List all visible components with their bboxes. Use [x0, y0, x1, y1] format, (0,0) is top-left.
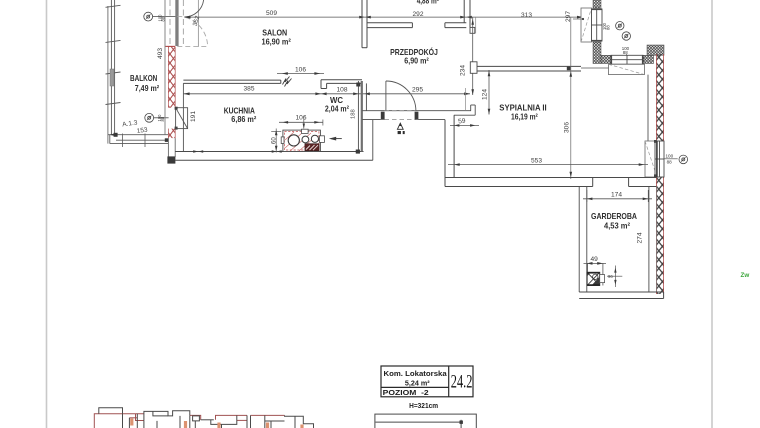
balcony bottom edge lines	[108, 135, 169, 144]
dim 106 top (opening)	[277, 73, 324, 75]
svg-text:60: 60	[272, 137, 278, 144]
entry door swing arc	[386, 81, 416, 111]
svg-text:WC: WC	[330, 96, 343, 105]
window heavy mid frame line	[656, 141, 658, 177]
svg-text:295: 295	[412, 87, 423, 94]
svg-text:188: 188	[351, 109, 357, 119]
balcony railing double line	[111, 0, 114, 135]
WC top wall with left hook	[321, 80, 362, 89]
vent circle top right 1	[616, 22, 624, 30]
red outline parts	[94, 414, 284, 428]
balcony hatched wall upper segment	[168, 47, 175, 108]
svg-text:6,90 m²: 6,90 m²	[404, 57, 429, 66]
svg-text:POZIOM -2: POZIOM -2	[383, 388, 429, 397]
page fold line left	[46, 0, 48, 428]
thin line right of stub	[475, 17, 477, 33]
svg-text:GARDEROBA: GARDEROBA	[591, 212, 637, 221]
top interior wall band right	[445, 23, 466, 28]
small rect next to X-box	[600, 275, 605, 283]
wall below hatch to corner	[168, 138, 175, 157]
middle window corner squares	[654, 140, 657, 143]
dim 59 line	[450, 124, 479, 126]
svg-text:49: 49	[591, 256, 599, 263]
zigzag exterior wall lower segment	[656, 177, 663, 294]
top interior wall band left (above przedpokoj)	[367, 23, 412, 28]
svg-text:124: 124	[482, 89, 489, 100]
horizontal dim line y=93.8	[184, 93, 470, 95]
balcony bottom dimension line 153	[116, 134, 169, 148]
window corner squares	[175, 107, 178, 110]
salon door dashed arc	[177, 16, 207, 46]
svg-text:106: 106	[295, 67, 306, 74]
arrows on 93.8 dim	[184, 92, 190, 95]
garderoba left wall outer	[578, 187, 580, 293]
wall between 4,88 room and przedpokoj right vertical	[464, 0, 470, 27]
vent circle right middle	[679, 155, 688, 164]
svg-text:16,19 m²: 16,19 m²	[511, 113, 538, 122]
entry arrow symbol triangle	[397, 123, 403, 129]
svg-text:59: 59	[458, 117, 467, 125]
svg-text:306: 306	[564, 122, 571, 133]
dim node dot balcony corner	[114, 133, 118, 137]
vent circle mid-left	[145, 113, 169, 122]
wall przedpokoj|lower zone vertical band	[445, 115, 454, 186]
shaft rect with dashed diagonal	[581, 8, 592, 42]
przedpokoj bottom wall outer face right part	[418, 119, 445, 121]
wall stub below (door jamb to sypialnia)	[470, 27, 475, 33]
kitchen counter outline	[283, 130, 321, 151]
przedpokoj bottom wall interior face	[362, 110, 471, 112]
middle window frame	[655, 141, 664, 177]
svg-text:PRZEDPOKÓJ: PRZEDPOKÓJ	[390, 46, 438, 57]
interior line under sill	[581, 67, 609, 69]
counter red dashed inner border	[284, 132, 319, 150]
vent circle top right 2	[622, 32, 630, 40]
big left arrow (kitchen entry)	[329, 137, 342, 141]
railing tick marks	[106, 5, 121, 104]
garderoba right wall inner	[648, 187, 650, 293]
svg-text:SALON: SALON	[262, 29, 287, 38]
exterior sill rect below window	[609, 64, 645, 74]
svg-text:106: 106	[296, 115, 307, 122]
chain arrow left	[184, 16, 190, 19]
svg-text:88: 88	[605, 25, 610, 30]
svg-text:493: 493	[157, 48, 164, 59]
lower floor plan top rectangle	[375, 414, 476, 428]
notch near sypialnia west	[454, 105, 475, 115]
corridor face line below przedpokoj	[372, 120, 374, 161]
svg-text:16,90 m²: 16,90 m²	[262, 37, 292, 46]
svg-text:5,24 m²: 5,24 m²	[405, 379, 430, 388]
svg-text:6,86 m²: 6,86 m²	[231, 115, 256, 124]
dim node dot right	[165, 138, 169, 142]
sypialnia top wall double line	[477, 66, 581, 71]
svg-text:88: 88	[667, 159, 673, 164]
junction dot WC wall top	[356, 83, 360, 87]
sypialnia bottom wall bottom face left part	[445, 186, 593, 188]
przedpokoj bottom wall outer face left part	[362, 119, 381, 121]
counter red diagonal hatch left part	[285, 132, 315, 151]
orange door marks	[132, 419, 302, 428]
arrow left at balcony bottom	[110, 133, 116, 136]
door jambs garderoba	[592, 178, 594, 187]
dim 306 vertical line	[570, 17, 572, 179]
garderoba left wall inner	[586, 187, 588, 293]
garderoba bottom wall	[579, 292, 663, 299]
dim 174 line	[583, 190, 652, 202]
dim 49	[584, 263, 607, 285]
sypialnia bottom wall top face	[445, 177, 656, 179]
svg-text:H=321cm: H=321cm	[409, 401, 438, 410]
red top line of hatched wall	[166, 45, 176, 47]
dense hatch column above	[593, 0, 601, 8]
kitchen bottom wall lines	[175, 152, 373, 161]
burner circle middle	[302, 136, 309, 143]
svg-text:88: 88	[160, 116, 165, 121]
left wall: balcony-side face line	[164, 0, 166, 135]
svg-text:174: 174	[611, 192, 622, 199]
junction dot on top wall	[567, 67, 571, 71]
dense hatch right of window	[643, 55, 654, 63]
svg-text:100: 100	[666, 154, 674, 159]
small right step at counter dim	[322, 120, 324, 126]
dense hatch corner up right	[647, 45, 664, 55]
svg-text:SYPIALNIA II: SYPIALNIA II	[499, 103, 546, 112]
WC right wall dark mid band	[361, 81, 363, 152]
balcony outer edge line	[107, 6, 109, 144]
dense hatch corner piece	[601, 55, 611, 63]
drainer dark rect	[305, 144, 319, 151]
faucet small rect on top edge	[302, 129, 309, 133]
WC right wall	[358, 81, 366, 152]
svg-text:4,53 m²: 4,53 m²	[604, 222, 630, 231]
entry door leaf	[385, 81, 387, 111]
kitchen-side wall face line	[182, 83, 184, 151]
site plan mini footprint	[94, 408, 313, 428]
black corner cap bottom-left	[167, 156, 175, 163]
kitchen top wall (salon|kuchnia)	[183, 80, 280, 83]
salon door solid arc top	[184, 0, 203, 17]
page fold line right	[711, 0, 713, 428]
legend table frame	[381, 366, 473, 397]
mini dim beside box	[607, 266, 622, 288]
chain tick at 365	[359, 16, 371, 19]
counter dim 106	[279, 121, 323, 123]
dim extension line at 465.6	[465, 88, 467, 111]
right wall interior face	[647, 75, 649, 178]
leader to shaft	[573, 18, 583, 20]
arrowpair marks on interior face	[193, 150, 203, 152]
svg-text:KUCHNIA: KUCHNIA	[224, 106, 255, 115]
svg-text:509: 509	[266, 10, 277, 17]
balcony window: frame rect with diagonal	[176, 108, 188, 129]
wall break symbol	[283, 77, 292, 87]
window horizontal top	[611, 55, 643, 64]
sypialnia bottom wall bottom face right part	[629, 186, 657, 188]
svg-text:108: 108	[337, 87, 348, 94]
svg-text:2,04 m²: 2,04 m²	[325, 105, 349, 114]
left wall: dashed line outer	[182, 0, 184, 47]
left wall: solid gray wall bar top	[175, 0, 178, 46]
svg-text:96: 96	[608, 274, 613, 279]
svg-text:BALKON: BALKON	[130, 74, 157, 83]
dim 234 vertical line	[472, 17, 474, 95]
window vertical top-right	[592, 9, 603, 41]
svg-text:553: 553	[531, 158, 542, 165]
dense hatch column below window	[593, 42, 601, 64]
sink bowl large circle	[288, 135, 299, 146]
zigzag exterior wall upper segment	[656, 54, 663, 141]
dim 124 vertical line	[488, 70, 490, 115]
balcony hatched wall lower segment	[168, 129, 175, 139]
right tab rect	[319, 136, 324, 143]
garderoba right wall outer line	[655, 187, 657, 293]
svg-text:4,88 m²: 4,88 m²	[417, 0, 440, 6]
sypialnia top wall end stub	[470, 62, 477, 74]
svg-text:385: 385	[244, 86, 255, 93]
svg-text:24.2: 24.2	[451, 371, 473, 392]
vent circle top-left	[144, 12, 176, 21]
chain arrow right	[577, 16, 583, 19]
leader from 106 down	[303, 116, 305, 129]
shaft X-box symbol	[587, 272, 600, 285]
svg-text:7,49 m²: 7,49 m²	[135, 84, 160, 93]
middle window sill rect	[645, 141, 657, 177]
svg-text:Zw: Zw	[741, 272, 750, 279]
svg-text:274: 274	[637, 232, 644, 243]
svg-text:313: 313	[521, 12, 532, 19]
left edge tick rect	[281, 137, 284, 144]
entry door dashed threshold	[385, 111, 416, 120]
salon-przedpokoj wall upper	[362, 0, 367, 48]
junction dot WC wall bottom	[356, 150, 360, 154]
burner circle right	[311, 135, 318, 142]
railing post symbol	[110, 69, 114, 86]
left wall: light line salon side	[197, 0, 199, 47]
svg-text:191: 191	[190, 111, 197, 122]
left vertical mini dim at counter	[271, 129, 281, 153]
dim 553 line	[448, 164, 648, 166]
leader from middle window	[664, 158, 678, 160]
svg-text:292: 292	[413, 11, 424, 18]
svg-text:234: 234	[460, 65, 467, 76]
svg-text:88: 88	[623, 50, 628, 55]
left wall: dashed line inner	[169, 0, 171, 47]
top dimension chain line	[184, 16, 583, 18]
entry door jamb blocks	[381, 112, 385, 120]
dark outline parts	[99, 408, 314, 428]
svg-text:Kom. Lokatorska: Kom. Lokatorska	[384, 369, 448, 378]
chain tick at 466	[460, 16, 472, 19]
dashed door line bottom	[177, 46, 207, 48]
